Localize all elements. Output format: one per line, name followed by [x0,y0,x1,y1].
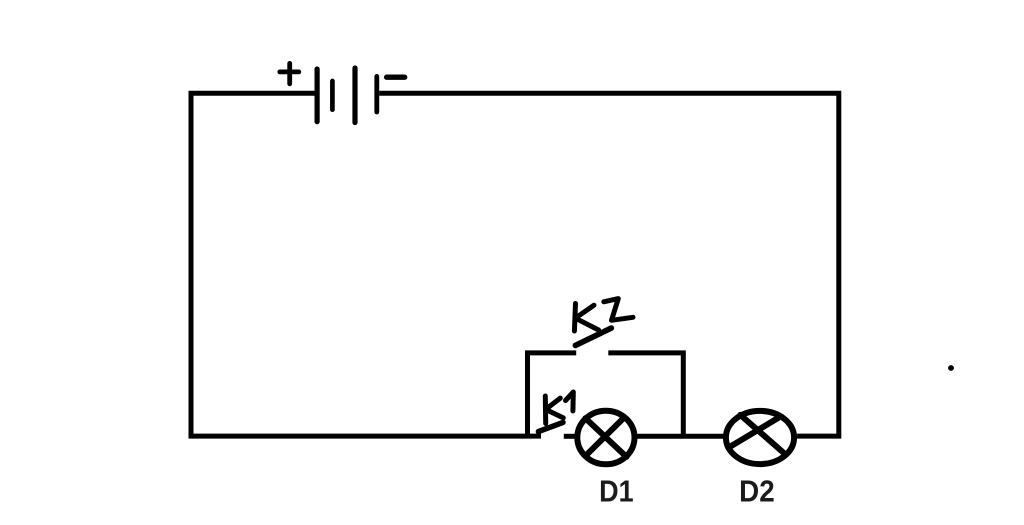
svg-text:D2: D2 [739,474,775,509]
svg-text:D1: D1 [599,474,634,509]
